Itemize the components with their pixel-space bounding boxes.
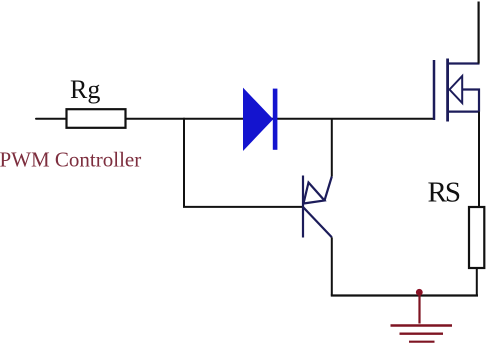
MOSFET Q2 [434,59,480,122]
resistor R2 (RS) [469,207,484,268]
wire: source vertical down to RS [478,112,480,208]
diode D1 [244,89,278,150]
wire: emitter vertical from main wire down to Q1 [331,118,333,177]
wire: drain vertical to top [478,2,480,64]
wire: vertical drop from main wire to base wire [183,118,185,207]
transistor Q1 (PNP) [303,176,332,238]
wire: main horizontal from input through Rg and diode to MOSFET gate [36,118,434,120]
wire: RS bottom lead to rail [476,268,478,296]
wire: collector vertical down to bottom rail [331,237,333,295]
resistor R1 (Rg) [67,109,126,128]
ground [391,292,453,342]
node: ground junction dot [416,289,423,296]
svg-text:Rg: Rg [70,75,100,104]
wire: bottom rail [331,294,478,296]
wire: horizontal base wire to transistor Q1 [183,206,303,208]
svg-text:PWM Controller: PWM Controller [0,148,141,172]
svg-text:RS: RS [428,177,460,209]
